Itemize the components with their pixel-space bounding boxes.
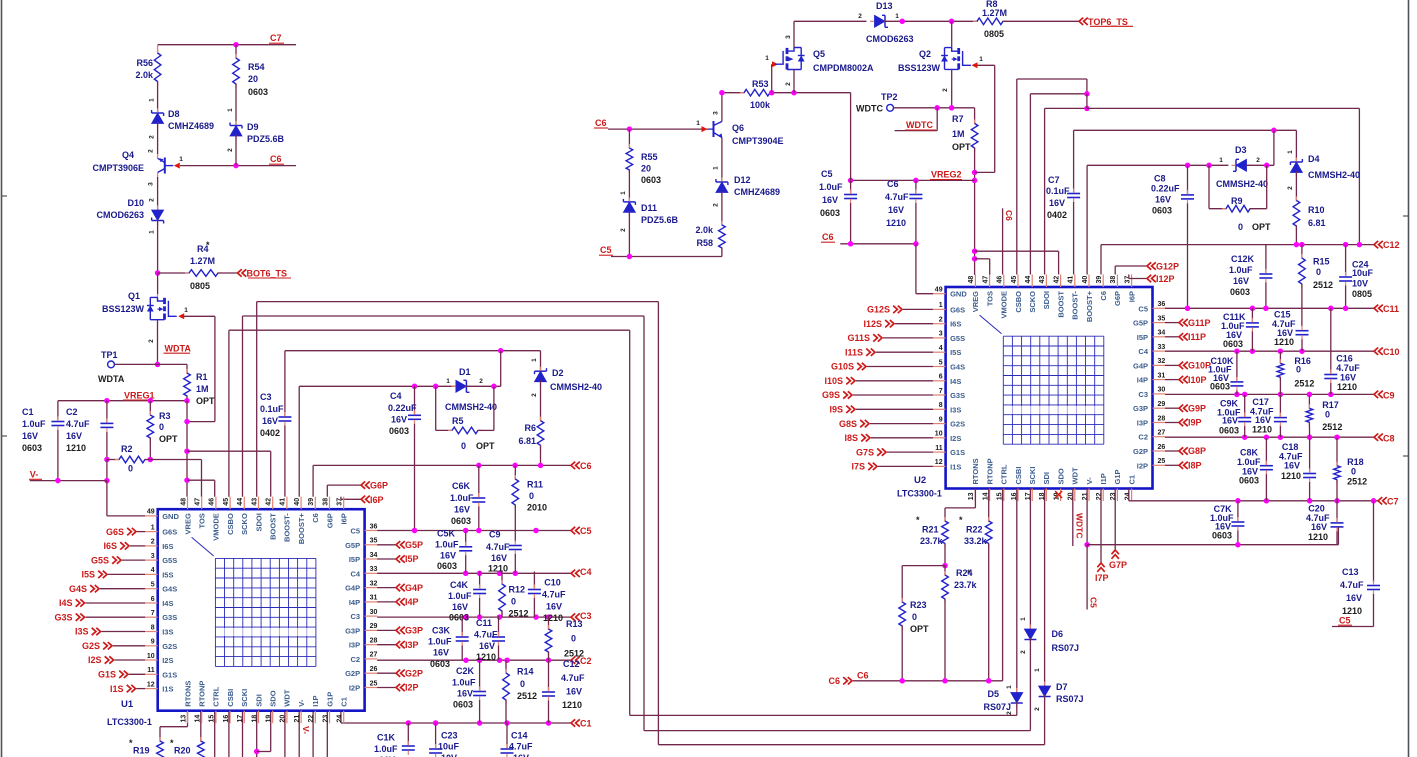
- wire SCKI pin17 U1: [242, 710, 244, 757]
- svg-text:I3P: I3P: [405, 640, 419, 650]
- wire pin24 U2 to C7 row: [1128, 489, 1130, 501]
- wire D10 to node BOT6: [157, 219, 159, 273]
- svg-text:I3S: I3S: [162, 628, 173, 637]
- svg-text:38: 38: [1110, 276, 1117, 284]
- svg-text:G1S: G1S: [162, 670, 177, 679]
- svg-text:I2S: I2S: [162, 656, 173, 665]
- svg-text:I10P: I10P: [1188, 375, 1207, 385]
- svg-text:2: 2: [713, 203, 720, 207]
- net label I12S: [895, 323, 933, 325]
- wire CSBI pin16 U2 + diode D5: [1016, 489, 1018, 693]
- svg-text:0: 0: [1351, 466, 1356, 476]
- svg-text:9: 9: [151, 639, 155, 646]
- net label I7S: [878, 465, 933, 467]
- svg-text:2: 2: [479, 378, 483, 385]
- svg-text:0: 0: [461, 441, 466, 451]
- svg-text:1: 1: [446, 378, 450, 385]
- svg-text:C6: C6: [857, 671, 869, 681]
- svg-text:34: 34: [1158, 330, 1166, 337]
- svg-text:0: 0: [1316, 267, 1321, 277]
- svg-text:C4: C4: [1138, 347, 1148, 356]
- capacitor C15: [1296, 330, 1309, 332]
- resistor R18: [1336, 438, 1338, 466]
- svg-text:33.2k: 33.2k: [964, 536, 988, 546]
- capacitor C3: [278, 416, 291, 418]
- capacitor C2K: [479, 660, 481, 691]
- svg-text:SDO: SDO: [269, 690, 278, 706]
- wire C6 to pin39 U1: [312, 465, 314, 496]
- svg-text:C6K: C6K: [452, 481, 471, 491]
- svg-text:BOT6_TS: BOT6_TS: [247, 269, 288, 279]
- svg-text:C1: C1: [1127, 475, 1136, 485]
- capacitor C1K: [407, 723, 409, 746]
- net label G4P: [377, 587, 396, 589]
- wire R53 col to VREG2: [850, 93, 852, 181]
- svg-text:V-: V-: [1085, 477, 1094, 485]
- svg-text:0603: 0603: [389, 426, 409, 436]
- svg-text:0.22uF: 0.22uF: [1151, 184, 1180, 194]
- svg-text:1: 1: [531, 358, 538, 362]
- svg-text:D13: D13: [876, 1, 893, 11]
- net label G12S: [903, 308, 933, 310]
- svg-text:CMPT3906E: CMPT3906E: [92, 163, 144, 173]
- svg-text:I5S: I5S: [950, 348, 961, 357]
- wire VREG to TOS pin47 U2: [975, 258, 990, 260]
- capacitor C12K: [1265, 245, 1267, 274]
- svg-text:2: 2: [1034, 707, 1041, 711]
- svg-text:PDZ5.6B: PDZ5.6B: [247, 134, 285, 144]
- diode D10: [152, 210, 164, 221]
- svg-text:R56: R56: [136, 58, 153, 68]
- svg-text:10uF: 10uF: [438, 742, 460, 752]
- svg-text:36: 36: [370, 523, 378, 530]
- svg-text:36: 36: [1158, 301, 1166, 308]
- wire Q2 gate: [978, 64, 995, 66]
- svg-text:45: 45: [1011, 276, 1018, 284]
- svg-text:Q4: Q4: [122, 150, 134, 160]
- net label G1S: [129, 673, 145, 675]
- svg-text:1210: 1210: [886, 218, 906, 228]
- svg-text:12: 12: [147, 681, 155, 688]
- svg-text:23.7k: 23.7k: [920, 536, 944, 546]
- svg-text:LTC3300-1: LTC3300-1: [897, 489, 942, 499]
- node R21/R23/R24: [942, 563, 948, 569]
- svg-text:0805: 0805: [1352, 289, 1372, 299]
- wire WDT pin20 U2 with WDTC label: [1072, 489, 1074, 547]
- svg-text:2: 2: [149, 198, 156, 202]
- svg-text:I2P: I2P: [1137, 461, 1148, 470]
- svg-text:G2S: G2S: [162, 642, 177, 651]
- svg-text:0603: 0603: [449, 613, 469, 623]
- svg-text:CSBI: CSBI: [1014, 467, 1023, 485]
- svg-text:R2: R2: [121, 444, 133, 454]
- svg-text:16V: 16V: [440, 551, 456, 561]
- svg-text:C5: C5: [351, 527, 361, 536]
- resistor R10: [1295, 196, 1297, 201]
- svg-text:10V: 10V: [1352, 279, 1368, 289]
- net label I9P: [1165, 422, 1179, 424]
- svg-text:G6P: G6P: [370, 481, 388, 491]
- wire SCKO pin44 U2: [1029, 94, 1031, 275]
- svg-text:35: 35: [370, 538, 378, 545]
- svg-text:D1: D1: [459, 367, 471, 377]
- wire net C6 to Q6 base: [608, 128, 709, 130]
- svg-text:I6P: I6P: [340, 513, 349, 524]
- svg-text:R22: R22: [966, 525, 983, 535]
- svg-text:42: 42: [1053, 276, 1060, 284]
- svg-text:2: 2: [1287, 186, 1294, 190]
- svg-text:R3: R3: [159, 411, 171, 421]
- capacitor C10: [533, 572, 535, 590]
- svg-text:G3S: G3S: [162, 613, 177, 622]
- svg-text:OPT: OPT: [159, 434, 178, 444]
- svg-text:R6: R6: [524, 423, 536, 433]
- svg-text:0603: 0603: [22, 443, 42, 453]
- net label G11S: [883, 337, 933, 339]
- svg-text:C11: C11: [1383, 304, 1399, 314]
- net label WDTC stub: [936, 108, 938, 131]
- svg-text:1210: 1210: [1342, 606, 1362, 616]
- resistor R2: [107, 459, 119, 461]
- svg-text:22: 22: [1096, 492, 1103, 500]
- svg-text:C8: C8: [1383, 434, 1395, 444]
- svg-text:0603: 0603: [430, 659, 450, 669]
- svg-text:C7: C7: [1387, 496, 1399, 506]
- resistor R56: [157, 45, 159, 53]
- svg-text:RTONP: RTONP: [198, 681, 207, 707]
- svg-text:I6S: I6S: [950, 320, 961, 329]
- svg-text:G5P: G5P: [405, 540, 423, 550]
- svg-text:2: 2: [785, 82, 792, 86]
- capacitor C23: [435, 723, 437, 749]
- svg-text:I4S: I4S: [162, 599, 173, 608]
- capacitor C17: [1279, 395, 1281, 418]
- svg-text:1: 1: [765, 55, 769, 62]
- svg-text:1.0uF: 1.0uF: [452, 678, 476, 688]
- svg-text:0805: 0805: [190, 281, 210, 291]
- wire BOOST+ pin40 U1: [298, 386, 300, 496]
- svg-text:Q2: Q2: [919, 49, 931, 59]
- svg-text:VMODE: VMODE: [212, 513, 221, 541]
- net label I8P: [1165, 464, 1179, 466]
- svg-text:RTONP: RTONP: [985, 458, 994, 484]
- capacitor C7K: [1237, 501, 1239, 522]
- svg-text:C4K: C4K: [450, 580, 469, 590]
- svg-text:1210: 1210: [1252, 424, 1272, 434]
- svg-text:R54: R54: [248, 62, 265, 72]
- net label G11P: [1165, 322, 1179, 324]
- wire top rail to D13: [794, 20, 867, 22]
- svg-text:LTC3300-1: LTC3300-1: [107, 717, 152, 727]
- svg-text:0: 0: [1325, 410, 1330, 420]
- svg-text:*: *: [959, 515, 963, 525]
- wire TP1 to WDTA: [115, 363, 158, 365]
- svg-text:1: 1: [1287, 150, 1294, 154]
- net label I4S: [86, 602, 146, 604]
- net label I3P: [377, 644, 396, 646]
- svg-text:16V: 16V: [1284, 461, 1300, 471]
- svg-text:19: 19: [266, 715, 273, 723]
- svg-text:C10: C10: [544, 578, 561, 588]
- capacitor C11K: [1251, 308, 1253, 323]
- svg-text:16V: 16V: [479, 641, 495, 651]
- svg-text:16V: 16V: [1222, 416, 1238, 426]
- svg-text:TP1: TP1: [101, 350, 118, 360]
- node V- GND junction: [104, 478, 110, 484]
- svg-text:2.0k: 2.0k: [135, 70, 154, 80]
- svg-text:11: 11: [147, 667, 155, 674]
- svg-text:16V: 16V: [66, 431, 82, 441]
- svg-text:20: 20: [641, 164, 651, 174]
- wire net C6 from Q4 base: [180, 165, 296, 167]
- svg-text:C12: C12: [563, 659, 580, 669]
- svg-text:C5: C5: [1138, 304, 1148, 313]
- svg-text:SDO: SDO: [1056, 468, 1065, 484]
- svg-text:D8: D8: [168, 109, 180, 119]
- svg-text:0603: 0603: [820, 208, 840, 218]
- svg-text:48: 48: [968, 276, 975, 284]
- svg-text:C6: C6: [828, 676, 840, 686]
- svg-text:0603: 0603: [1219, 426, 1239, 436]
- svg-text:C6: C6: [822, 232, 834, 242]
- diode D12 zener: [716, 182, 728, 193]
- capacitor C12: [548, 660, 550, 692]
- svg-text:CMOD6263: CMOD6263: [96, 210, 144, 220]
- svg-text:C14: C14: [511, 731, 528, 741]
- svg-text:C5: C5: [600, 245, 612, 255]
- net label I6S: [130, 545, 145, 547]
- svg-text:0402: 0402: [1047, 210, 1067, 220]
- svg-text:16V: 16V: [1346, 593, 1362, 603]
- wire D1 cathode up to BOOST-: [500, 351, 502, 387]
- net C5 row: [377, 530, 571, 532]
- svg-text:WDTC: WDTC: [856, 104, 883, 114]
- capacitor C2: [106, 401, 108, 424]
- svg-text:BOOST: BOOST: [1056, 291, 1065, 318]
- svg-text:7: 7: [939, 388, 943, 395]
- svg-text:I5S: I5S: [162, 570, 173, 579]
- svg-text:I10S: I10S: [824, 376, 843, 386]
- svg-text:16V: 16V: [546, 602, 562, 612]
- wire I12P pin37 U2: [1128, 275, 1130, 279]
- wire BOOST- row to D4: [1074, 129, 1297, 131]
- resistor R53 row: [722, 92, 744, 94]
- svg-text:I4S: I4S: [950, 377, 961, 386]
- svg-text:3: 3: [939, 331, 943, 338]
- wire D8 to Q4: [157, 122, 159, 154]
- svg-text:G6S: G6S: [106, 527, 124, 537]
- svg-text:I4P: I4P: [349, 598, 360, 607]
- svg-text:2: 2: [148, 339, 155, 343]
- wire WDT pin20 U1: [284, 710, 286, 757]
- svg-text:BOOST+: BOOST+: [1085, 290, 1094, 322]
- wire CSBO bus U1 pin45: [228, 330, 230, 497]
- wire G6P pin38 U1: [326, 485, 328, 497]
- wire pin24 U1 to C1 row: [340, 710, 342, 723]
- svg-text:TOS: TOS: [985, 291, 994, 306]
- wire G1P pin23 U1: [326, 710, 328, 757]
- svg-text:C6: C6: [580, 461, 592, 471]
- svg-text:2: 2: [227, 148, 234, 152]
- svg-text:1: 1: [149, 98, 156, 102]
- svg-text:I12P: I12P: [1156, 274, 1175, 284]
- svg-text:C4: C4: [580, 567, 592, 577]
- svg-text:13: 13: [968, 492, 975, 500]
- sheet border right: [1408, 0, 1410, 757]
- net label G6P: [361, 481, 370, 488]
- wire VREG to VMODE pin46 U1: [187, 479, 215, 481]
- svg-text:C2: C2: [351, 655, 361, 664]
- svg-text:4: 4: [939, 345, 943, 352]
- svg-text:TOP6_TS: TOP6_TS: [1088, 17, 1128, 27]
- svg-text:C3: C3: [351, 612, 361, 621]
- svg-text:1210: 1210: [543, 613, 563, 623]
- wire VMODE dangle with C6 label U2: [1002, 208, 1004, 274]
- svg-text:18: 18: [251, 715, 258, 723]
- svg-text:23: 23: [322, 715, 329, 723]
- svg-text:0402: 0402: [260, 428, 280, 438]
- svg-text:CSBO: CSBO: [226, 513, 235, 535]
- wire G12P pin38 U2: [1114, 266, 1116, 275]
- svg-text:1: 1: [620, 191, 627, 195]
- resistor R6: [540, 417, 542, 422]
- wire gate join: [975, 171, 995, 173]
- wire I6P pin37 U1: [340, 497, 342, 500]
- svg-text:17: 17: [237, 715, 244, 723]
- wire Q1 source to WDTA node: [157, 320, 159, 365]
- svg-text:47: 47: [195, 498, 202, 506]
- svg-text:R21: R21: [922, 525, 939, 535]
- resistor R20: [200, 710, 202, 741]
- wire BOOST- row to D2: [285, 350, 541, 352]
- svg-text:GND: GND: [162, 512, 179, 521]
- svg-text:C3: C3: [260, 392, 272, 402]
- svg-text:G4S: G4S: [69, 584, 87, 594]
- svg-text:25: 25: [370, 680, 378, 687]
- svg-text:G6P: G6P: [1113, 291, 1122, 306]
- svg-text:G1P: G1P: [1113, 469, 1122, 484]
- svg-text:0603: 0603: [248, 87, 268, 97]
- svg-text:*: *: [170, 738, 174, 748]
- svg-text:CSBI: CSBI: [226, 689, 235, 707]
- svg-text:33: 33: [1158, 344, 1166, 351]
- svg-text:I2S: I2S: [950, 434, 961, 443]
- svg-text:BSS123W: BSS123W: [102, 304, 145, 314]
- svg-text:1.0uF: 1.0uF: [428, 637, 452, 647]
- svg-text:C2K: C2K: [456, 666, 475, 676]
- svg-text:SDI: SDI: [254, 694, 263, 707]
- svg-text:2.0k: 2.0k: [695, 225, 714, 235]
- resistor R17: [1308, 395, 1310, 408]
- svg-text:I4P: I4P: [1137, 376, 1148, 385]
- svg-text:I12S: I12S: [863, 319, 882, 329]
- svg-text:G6S: G6S: [950, 305, 965, 314]
- wire Q6 emitter to D12: [721, 138, 723, 183]
- svg-text:43: 43: [251, 498, 258, 506]
- svg-text:16V: 16V: [1311, 522, 1327, 532]
- svg-text:G1P: G1P: [325, 692, 334, 707]
- svg-text:I7P: I7P: [1095, 573, 1109, 583]
- wire D3 pin2 up to BOOST-: [1273, 130, 1275, 165]
- svg-text:V-: V-: [301, 726, 311, 734]
- svg-text:2: 2: [1006, 711, 1013, 715]
- svg-text:G10S: G10S: [831, 362, 854, 372]
- svg-text:OPT: OPT: [1252, 222, 1271, 232]
- svg-text:C6: C6: [311, 513, 320, 523]
- svg-text:38: 38: [322, 498, 329, 506]
- svg-text:16V: 16V: [433, 648, 449, 658]
- svg-text:D4: D4: [1308, 154, 1320, 164]
- svg-text:0.22uF: 0.22uF: [388, 403, 417, 413]
- svg-text:0: 0: [128, 464, 133, 474]
- svg-text:OPT: OPT: [910, 624, 929, 634]
- svg-text:I1S: I1S: [110, 684, 124, 694]
- svg-text:22: 22: [308, 715, 315, 723]
- svg-text:G4P: G4P: [405, 583, 423, 593]
- svg-text:C7: C7: [270, 33, 282, 43]
- svg-text:C5K: C5K: [437, 529, 456, 539]
- svg-text:RTONS: RTONS: [183, 681, 192, 707]
- svg-text:1210: 1210: [1337, 382, 1357, 392]
- svg-text:1: 1: [149, 230, 156, 234]
- svg-text:I8P: I8P: [1188, 461, 1202, 471]
- svg-text:C1K: C1K: [377, 733, 396, 743]
- svg-text:1: 1: [696, 120, 700, 127]
- svg-text:OPT: OPT: [952, 142, 971, 152]
- svg-text:G1S: G1S: [950, 448, 965, 457]
- svg-text:I6P: I6P: [370, 495, 384, 505]
- capacitor C18: [1309, 438, 1311, 474]
- svg-text:2: 2: [620, 228, 627, 232]
- svg-text:C9: C9: [1383, 391, 1395, 401]
- svg-text:24: 24: [1124, 492, 1131, 500]
- net C8 row: [1165, 436, 1374, 438]
- svg-text:C5: C5: [1339, 616, 1351, 626]
- svg-text:1.0uF: 1.0uF: [22, 419, 46, 429]
- svg-text:10V: 10V: [441, 753, 457, 757]
- svg-text:31: 31: [370, 595, 378, 602]
- svg-text:R13: R13: [566, 619, 583, 629]
- net label G8S: [870, 423, 933, 425]
- resistor R16: [1279, 352, 1281, 364]
- svg-text:0603: 0603: [437, 561, 457, 571]
- svg-text:1: 1: [939, 302, 943, 309]
- svg-text:D12: D12: [734, 175, 751, 185]
- svg-text:G8P: G8P: [1188, 446, 1206, 456]
- svg-text:16V: 16V: [1233, 276, 1249, 286]
- svg-text:26: 26: [1158, 444, 1166, 451]
- wire VREG to BOOST pin42 U2: [975, 250, 1059, 252]
- svg-text:16V: 16V: [888, 205, 904, 215]
- svg-text:31: 31: [1158, 372, 1166, 379]
- svg-text:OPT: OPT: [196, 396, 215, 406]
- svg-text:R15: R15: [1313, 257, 1330, 267]
- svg-text:46: 46: [209, 498, 216, 506]
- svg-text:R11: R11: [527, 480, 543, 490]
- svg-text:RS07J: RS07J: [1056, 694, 1084, 704]
- svg-text:CSBO: CSBO: [1014, 291, 1023, 313]
- svg-text:16V: 16V: [457, 689, 473, 699]
- svg-text:26: 26: [370, 666, 378, 673]
- svg-text:U2: U2: [914, 475, 926, 486]
- svg-text:10uF: 10uF: [1352, 268, 1374, 278]
- svg-text:0603: 0603: [1212, 530, 1232, 540]
- svg-text:48: 48: [180, 498, 187, 506]
- svg-text:2512: 2512: [1322, 422, 1342, 432]
- svg-text:C2: C2: [66, 407, 78, 417]
- svg-text:5: 5: [939, 359, 943, 366]
- svg-text:D7: D7: [1056, 682, 1068, 692]
